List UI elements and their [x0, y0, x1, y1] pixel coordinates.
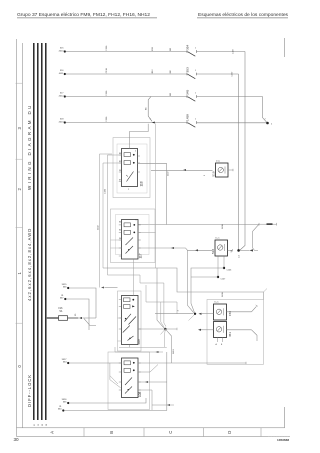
svg-text:1: 1 — [195, 93, 196, 95]
row y299 label — [60, 295, 64, 300]
svg-text:4011: 4011 — [59, 73, 64, 75]
row3 node dot — [64, 95, 66, 97]
svg-text:A: A — [50, 431, 55, 434]
svg-text:B: B — [109, 431, 114, 434]
svg-text:Grupo 37 Esquema eléctrico FM9: Grupo 37 Esquema eléctrico FM9, FM12, FH… — [17, 12, 150, 17]
svg-text:1458: 1458 — [185, 114, 189, 121]
wire 108 out y363 — [138, 362, 246, 364]
row2 wire left — [66, 73, 187, 75]
relay 108 blade dot — [128, 389, 129, 390]
wire 518 feed vertical — [188, 250, 194, 312]
svg-text:C137: C137 — [232, 71, 234, 77]
svg-text:150: 150 — [228, 311, 232, 316]
relay 118 contact rect 1 — [124, 153, 131, 157]
wire 117 to 518 feed — [138, 248, 188, 250]
valve 518 pin dot b — [217, 276, 219, 278]
svg-text:364: 364 — [63, 362, 67, 364]
row y288 label — [62, 284, 68, 289]
wire into 509 arrow — [101, 286, 104, 288]
wire relay118 top feed — [130, 124, 149, 149]
svg-text:D+C: D+C — [215, 302, 220, 304]
valve 451 bottom pin a — [217, 338, 219, 343]
svg-text:2: 2 — [17, 188, 22, 191]
svg-text:B11: B11 — [152, 46, 154, 50]
relay 117 contact dot 1 — [133, 224, 135, 226]
fuse wire diagonal — [84, 319, 96, 326]
junction dot rows 3-4 — [266, 122, 269, 125]
svg-text:365: 365 — [63, 402, 67, 404]
relay 108 contact dot 1 — [133, 362, 135, 364]
svg-text:B: B — [221, 344, 223, 346]
svg-text:5A: 5A — [60, 310, 63, 313]
svg-text:4012: 4012 — [59, 95, 65, 97]
relay 509 body — [122, 296, 139, 345]
valve 150 right diag — [252, 306, 257, 312]
relay 117 blade dot — [128, 249, 129, 250]
svg-text:345: 345 — [185, 90, 189, 95]
svg-text:86: 86 — [119, 153, 121, 155]
svg-text:85: 85 — [119, 161, 121, 163]
relay 509 blade 4 — [128, 336, 134, 341]
wire y363 end tick — [245, 362, 247, 364]
long wire y224 — [139, 224, 260, 226]
svg-text:C136: C136 — [106, 90, 108, 96]
svg-text:C136: C136 — [106, 116, 108, 122]
relay 118 body — [122, 149, 138, 187]
bundle end labels — [34, 424, 48, 426]
relay 509 contact rect 1 — [124, 298, 131, 302]
valve 150 body — [214, 304, 227, 320]
svg-text:C136: C136 — [106, 67, 108, 73]
svg-text:DIFF--LOCK: DIFF--LOCK — [27, 374, 32, 407]
valve 150 inner mark — [223, 308, 225, 315]
wire into 509 — [105, 287, 118, 289]
svg-text:Esquemas eléctricos de los com: Esquemas eléctricos de los componentes — [198, 12, 289, 17]
svg-text:518: 518 — [211, 249, 215, 254]
row y299 dot — [64, 298, 66, 300]
valve 451 bottom pin b — [222, 338, 224, 343]
row y410 label — [58, 406, 62, 411]
relay 509 left pin wires — [118, 318, 122, 341]
connector arrow into junction — [250, 249, 254, 251]
relay 117 inner holder — [116, 215, 150, 255]
wire y347 — [119, 346, 167, 348]
relay 108 pin marks — [119, 363, 141, 390]
row y403 label — [62, 399, 68, 404]
svg-text:1: 1 — [195, 70, 196, 72]
svg-text:86: 86 — [119, 222, 121, 224]
relay 108 body — [122, 358, 139, 398]
valve 518 inner mark — [224, 244, 226, 251]
svg-text:0: 0 — [17, 365, 22, 368]
wire y224 drop — [253, 224, 260, 250]
svg-text:C137: C137 — [233, 48, 235, 54]
svg-text:EB: EB — [170, 70, 172, 73]
row3 branch to row4 — [148, 97, 152, 122]
relay 118 enclosure — [113, 138, 150, 198]
row4 feed label — [59, 119, 65, 124]
svg-text:D+C: D+C — [216, 161, 221, 163]
valve 519 inner mark — [224, 167, 226, 174]
relay 509 enclosure — [118, 291, 142, 351]
relay 509 blade4 dot — [129, 338, 130, 339]
relay 509 blade 3 — [123, 326, 130, 333]
fuse F16 out wire — [68, 317, 79, 319]
relay 118 contact dot 2 — [133, 162, 135, 164]
row3 feed label — [59, 93, 65, 98]
svg-text:31: 31 — [34, 424, 36, 426]
relay 118 switch blade — [127, 172, 134, 182]
relay 118 pin marks — [119, 155, 140, 182]
left ruler ticks — [16, 83, 23, 323]
wire 108 y382 — [138, 352, 167, 411]
header left title — [17, 12, 157, 18]
valve 451 inner mark — [223, 326, 225, 333]
svg-text:1: 1 — [17, 272, 22, 275]
wire junction down diag — [165, 329, 171, 363]
row4 node dot — [64, 121, 66, 123]
harness bundle line 3 — [41, 43, 43, 420]
wire y224 splice dash — [267, 223, 273, 225]
svg-text:C146: C146 — [227, 270, 233, 272]
row2 wire right — [197, 73, 239, 75]
relay 118 pin labels — [119, 151, 136, 192]
fuse F16 body — [59, 316, 68, 321]
relay 108 contact rect 1 — [124, 361, 131, 365]
row1 feed label — [59, 48, 65, 53]
valve 518 wire arrow — [195, 249, 198, 251]
svg-text:4013: 4013 — [59, 121, 65, 123]
bus junction dot — [237, 249, 240, 252]
header right title — [197, 12, 289, 18]
harness bundle line 1 — [33, 43, 35, 420]
fuse F16 connector arrow — [79, 317, 82, 319]
y junction valves dot — [194, 313, 196, 315]
valve 451 body — [214, 322, 227, 338]
wire x155 down right of 118 — [155, 124, 157, 269]
wire 518 pin b horizontal — [191, 276, 218, 278]
valve 451 feed arrow — [198, 329, 201, 331]
svg-text:1: 1 — [265, 118, 267, 120]
harness bundle line 4 — [45, 43, 47, 420]
svg-text:2: 2 — [128, 189, 129, 191]
relay 509 blade 2 — [129, 317, 137, 325]
left ruler band — [17, 39, 23, 437]
svg-text:1: 1 — [150, 118, 152, 120]
row y410 dot — [62, 409, 64, 411]
relay 117 pin marks — [119, 225, 141, 256]
wire y224 end tick — [258, 223, 260, 226]
valve 519 right stub — [228, 169, 233, 171]
relay 118 contact dot 1 — [133, 154, 135, 156]
valve 519 body — [216, 163, 229, 177]
relay 117 contact rect 1 — [124, 223, 131, 227]
wire y352 arrow — [156, 351, 159, 353]
row y288 dot — [67, 287, 69, 289]
bottom ruler ticks — [84, 428, 261, 437]
wire 108 y390 path — [138, 390, 152, 410]
svg-text:509: 509 — [137, 339, 141, 345]
relay 117 right pin stub 232 — [138, 231, 156, 233]
wire y405 stub — [152, 404, 174, 406]
row1 bus down — [239, 52, 245, 251]
valve 518 pin wire b — [217, 256, 219, 277]
relay 509 contact arrow — [132, 305, 135, 307]
wire x157 tap from y268 — [157, 268, 164, 328]
row2 feed label — [59, 70, 64, 75]
dotted trim line bottom right — [268, 435, 290, 437]
wire 117 bottom to 509 — [133, 259, 135, 295]
row y403 wire — [69, 398, 146, 403]
valve 519 wire arrow — [183, 169, 186, 171]
wire x99 down — [100, 154, 113, 288]
bottom ruler band — [17, 428, 291, 437]
valve 518 body — [215, 240, 228, 256]
row1 node dot — [64, 50, 66, 52]
svg-text:360: 360 — [58, 409, 62, 411]
wire junction down stub — [163, 329, 166, 347]
wire 108 y372 diag — [138, 365, 158, 373]
wire y405 arrow — [167, 404, 170, 406]
svg-text:2406: 2406 — [222, 292, 224, 297]
valve 451 coil circle — [216, 327, 221, 332]
row1 switch — [187, 50, 196, 56]
diagram corner tick bottom right — [284, 407, 286, 428]
valve 150 coil circle — [216, 309, 221, 314]
svg-text:1: 1 — [204, 174, 206, 176]
relay 117 contact dot 2 — [133, 232, 135, 234]
wire 117-518 arrow — [171, 247, 174, 249]
row4 wire left — [66, 122, 187, 124]
wire 118 left pin 155 — [108, 155, 122, 275]
valve 519 coil circle — [218, 167, 223, 172]
svg-text:D: D — [227, 431, 232, 434]
valve 518 coil circle — [218, 245, 223, 250]
valve feed dash — [202, 313, 214, 315]
diagram corner tick top right — [284, 38, 286, 57]
svg-text:354: 354 — [185, 45, 189, 50]
valve 518 right stub — [228, 249, 233, 251]
svg-text:1: 1 — [178, 310, 180, 312]
wire 509 to junction — [138, 328, 177, 330]
svg-text:EB: EB — [170, 92, 172, 95]
svg-text:108: 108 — [138, 391, 142, 397]
row2 switch — [187, 73, 196, 79]
harness bundle line 2 — [37, 43, 39, 420]
row y403 dot — [67, 402, 69, 404]
relay 108 contact dot 2 — [133, 369, 135, 371]
relay 108 blade 2 — [125, 387, 132, 394]
svg-text:366: 366 — [63, 287, 67, 289]
row4 switch — [187, 121, 196, 127]
svg-text:87: 87 — [119, 180, 121, 182]
row y288 wire — [69, 288, 96, 318]
wire y382 arrow — [145, 381, 148, 383]
svg-text:85: 85 — [119, 229, 121, 231]
wire 108 left feed label — [62, 359, 68, 364]
wire x160 into junction — [161, 302, 165, 328]
relay 117 pin labels — [119, 220, 137, 241]
svg-text:117: 117 — [139, 253, 143, 258]
valve 150 right wire — [227, 311, 252, 313]
row3 wire left — [66, 96, 187, 98]
svg-text:15: 15 — [38, 424, 40, 426]
valve 451 feed diag — [189, 315, 195, 321]
svg-text:118: 118 — [139, 181, 143, 186]
wire x146 path — [146, 285, 177, 314]
relay 118 inner holder — [117, 144, 147, 193]
relay 509 blade 1 — [125, 314, 132, 322]
row3 drop to junction — [263, 97, 268, 123]
valve 451 right diag — [252, 330, 258, 341]
valve group enclosure — [207, 300, 264, 365]
fuse F16 label — [59, 308, 64, 313]
relay 117 blade 2 — [126, 246, 134, 254]
wire y275 path — [108, 275, 167, 327]
svg-text:C147: C147 — [221, 279, 227, 281]
row1 wire right — [197, 51, 245, 53]
svg-text:4010: 4010 — [59, 50, 65, 52]
svg-text:EB: EB — [170, 47, 172, 50]
wire junction downleft diag — [161, 329, 166, 335]
relay 117 body — [122, 220, 139, 260]
relay 118 blade tick — [126, 175, 128, 177]
row1 wire left — [66, 51, 187, 53]
valve 451 coil cross — [217, 327, 221, 331]
junction stub — [240, 249, 250, 251]
row y410 wire — [64, 410, 167, 412]
relay 509 pin marks — [119, 300, 141, 348]
fuse F16 feed wire — [47, 317, 59, 319]
junction dot diff feed — [164, 328, 167, 331]
wire y352 — [115, 347, 163, 352]
fuse wire continuation — [82, 317, 96, 319]
svg-text:451: 451 — [228, 332, 232, 337]
wire 118 left pin 163 — [103, 163, 122, 268]
valve 518 pin dot a — [223, 267, 225, 269]
wire 108 left feed — [67, 362, 69, 364]
valve 150 diag tick — [256, 305, 258, 306]
svg-text:C1: C1 — [239, 254, 241, 258]
svg-text:B12: B12 — [152, 69, 154, 74]
valve 150 coil cross — [217, 310, 221, 314]
relay 108 feed diagonals — [110, 363, 121, 388]
valve 518 wire — [188, 249, 213, 251]
svg-text:30: 30 — [119, 238, 121, 240]
svg-text:2410: 2410 — [173, 349, 175, 354]
svg-text:5: 5 — [136, 220, 137, 222]
relay 509 contact rect 2 — [124, 305, 131, 309]
relay 509 blade dot — [125, 318, 126, 319]
relay 509 contact dot 1 — [132, 299, 134, 301]
wire 108 left feed line — [69, 362, 121, 364]
svg-text:5: 5 — [135, 151, 136, 153]
svg-text:B1: B1 — [146, 107, 148, 110]
wire y224 tail — [259, 223, 277, 225]
row4 wire right — [197, 122, 267, 124]
relay 108 blade 1 — [125, 378, 132, 386]
valve 518 pin wire a — [223, 256, 225, 268]
svg-text:WIRING DIAGRAM DU: WIRING DIAGRAM DU — [27, 103, 32, 190]
valve feed arrow 1 — [199, 313, 202, 315]
valve 519 wire — [151, 169, 213, 171]
svg-text:C136: C136 — [105, 188, 107, 194]
wire 518 pins vertical — [191, 268, 224, 313]
row y299 wire — [66, 299, 89, 330]
row2 node dot — [64, 73, 66, 75]
row4 connector arrow — [152, 121, 155, 123]
relay 118 contact rect 2 — [124, 161, 131, 165]
svg-text:58: 58 — [46, 424, 48, 426]
relay 117 blade 1 — [126, 238, 134, 246]
svg-text:30: 30 — [14, 437, 20, 442]
svg-text:C: C — [168, 431, 173, 434]
svg-text:4x2,6x2,6x4,8x2,8x4,AWD: 4x2,6x2,6x4,8x2,8x4,AWD — [27, 228, 32, 301]
valve 519 right tick — [232, 169, 234, 171]
svg-text:353: 353 — [185, 67, 189, 72]
svg-text:367: 367 — [60, 298, 64, 300]
svg-text:30: 30 — [119, 170, 121, 172]
valve 518 coil cross — [218, 246, 222, 250]
relay 108 contact rect 2 — [124, 368, 131, 372]
svg-text:C136: C136 — [106, 45, 108, 51]
svg-text:1353668: 1353668 — [277, 438, 289, 442]
svg-text:1: 1 — [195, 119, 196, 121]
svg-text:2402: 2402 — [98, 225, 100, 230]
svg-text:15: 15 — [75, 313, 77, 316]
valve feed wire y313.5 — [155, 313, 193, 315]
svg-text:D+C: D+C — [216, 238, 221, 240]
svg-text:A: A — [216, 343, 218, 346]
row3 switch — [187, 95, 196, 101]
wire y268 long — [103, 268, 264, 300]
svg-text:F16: F16 — [59, 308, 64, 310]
wire y224 tail tick — [276, 223, 278, 226]
valve 451 feed line — [201, 329, 214, 331]
relay 108 enclosure — [108, 352, 150, 410]
svg-text:3: 3 — [17, 127, 22, 130]
svg-text:30: 30 — [42, 424, 44, 426]
relay 117 left pin wires — [111, 240, 122, 248]
svg-text:519: 519 — [212, 171, 216, 176]
valve 451 pin labels — [216, 343, 224, 346]
relay 117 contact rect 2 — [124, 230, 131, 234]
valve 451 right wire — [227, 329, 252, 331]
row2 bus down — [238, 74, 240, 250]
relay 117 enclosure — [111, 209, 156, 263]
valve 519 feed vertical — [138, 163, 167, 224]
svg-text:2: 2 — [271, 124, 273, 126]
row3 wire right — [197, 96, 263, 98]
svg-text:1: 1 — [195, 48, 196, 50]
svg-text:2407: 2407 — [168, 171, 170, 176]
valve 519 coil cross — [219, 168, 223, 172]
